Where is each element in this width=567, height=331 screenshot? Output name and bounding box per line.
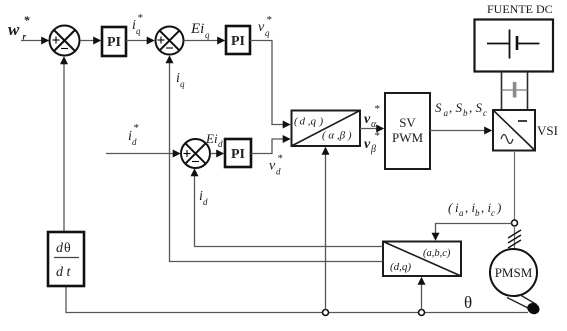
svg-text:b: b <box>475 208 480 218</box>
svg-text:d t: d t <box>56 265 72 280</box>
svg-text:θ: θ <box>64 241 71 256</box>
svg-text:θ: θ <box>464 293 472 312</box>
svg-text:): ) <box>319 116 324 128</box>
wire S3 to PI3 <box>210 153 223 155</box>
node current tap <box>512 220 518 226</box>
wire SVPWM to VSI <box>430 130 491 132</box>
motor PMSM <box>490 249 537 296</box>
svg-text:VSI: VSI <box>537 123 558 138</box>
svg-text:v: v <box>364 137 371 152</box>
wire DC bus left <box>501 72 503 111</box>
wire iq feedback <box>170 57 384 262</box>
svg-text:(: ( <box>448 200 453 215</box>
node theta tap 1 <box>323 310 329 316</box>
svg-text:c: c <box>483 108 487 118</box>
svg-text:S: S <box>435 100 442 115</box>
svg-text:d: d <box>56 241 64 256</box>
svg-text:q: q <box>265 28 270 38</box>
wire S1 to PI1 <box>80 40 100 42</box>
svg-text:SV: SV <box>399 115 416 130</box>
three-phase slashes <box>508 230 521 248</box>
svg-text:d: d <box>276 167 281 177</box>
PI controller PI3 <box>225 139 251 167</box>
block dtheta/dt <box>48 232 84 286</box>
svg-text:PWM: PWM <box>392 130 424 145</box>
wire transform1 to SVPWM <box>360 128 383 130</box>
svg-text:q: q <box>205 30 210 40</box>
transform block abc to dq <box>383 242 461 277</box>
svg-text:v: v <box>258 20 265 35</box>
svg-text:v: v <box>364 112 371 127</box>
svg-text:b: b <box>463 108 468 118</box>
shaft and encoder dot <box>507 295 541 317</box>
svg-text:β: β <box>370 144 376 155</box>
PI controller PI1 <box>102 27 126 56</box>
node theta tap 2 <box>419 310 425 316</box>
svg-text:Ei: Ei <box>205 131 218 146</box>
summing junction S2 <box>156 27 184 55</box>
svg-text:*: * <box>277 153 283 165</box>
svg-text:*: * <box>266 14 272 26</box>
svg-text:, S: , S <box>449 100 463 115</box>
svg-text:(a,b,c): (a,b,c) <box>423 248 451 259</box>
block FUENTE DC <box>475 20 554 72</box>
wire speed feedback dtheta/dt to S1 <box>63 58 65 233</box>
PI controller PI2 <box>226 26 250 54</box>
summing junction S3 <box>181 139 210 168</box>
capacitor DC link <box>502 82 528 98</box>
svg-text:( α ,β ): ( α ,β ) <box>322 130 352 142</box>
wire S2 to PI2 <box>184 40 225 42</box>
svg-text:FUENTE DC: FUENTE DC <box>487 2 553 16</box>
summing junction S1 <box>50 26 80 56</box>
svg-text:(d,q): (d,q) <box>390 261 411 273</box>
svg-text:PI: PI <box>231 147 245 162</box>
svg-text:PMSM: PMSM <box>495 265 533 280</box>
svg-text:a: a <box>459 208 464 218</box>
svg-text:*: * <box>374 103 380 115</box>
wire PI1 to S2 <box>126 40 154 42</box>
wire id feedback <box>195 170 384 247</box>
svg-text:d: d <box>132 137 137 147</box>
transform block dq to alpha-beta <box>292 111 361 147</box>
svg-text:c: c <box>491 208 495 218</box>
svg-text:*: * <box>24 13 31 27</box>
svg-text:PI: PI <box>107 35 121 50</box>
wire id* input to S3 <box>106 153 180 155</box>
wire wr* input <box>21 40 48 42</box>
svg-text:, i: , i <box>481 200 492 215</box>
wire VSI to current node <box>514 151 516 221</box>
svg-text:*: * <box>133 122 139 134</box>
wire theta to transform1 <box>325 148 327 310</box>
wire node to PMSM <box>514 226 516 249</box>
svg-text:*: * <box>137 12 143 24</box>
wire DC bus right <box>527 72 529 111</box>
svg-text:q: q <box>136 26 141 36</box>
block SV PWM <box>385 93 430 169</box>
wire PI3 to dq-ab transform (vd*) <box>251 139 290 154</box>
svg-text:d ,q: d ,q <box>300 116 317 128</box>
svg-text:d: d <box>218 139 223 149</box>
svg-text:*: * <box>374 130 380 142</box>
svg-text:, i: , i <box>465 200 476 215</box>
block VSI <box>493 110 535 151</box>
svg-text:v: v <box>269 159 276 174</box>
svg-text:PI: PI <box>231 34 245 49</box>
svg-text:Ei: Ei <box>190 21 204 37</box>
svg-text:w: w <box>8 20 20 39</box>
svg-text:): ) <box>496 200 501 215</box>
svg-text:d: d <box>203 197 208 207</box>
svg-text:α: α <box>371 119 377 130</box>
battery symbol <box>487 30 540 59</box>
wire theta bottom bus <box>66 286 528 313</box>
wire node to abc-dq transform <box>436 224 512 240</box>
svg-text:, S: , S <box>469 100 483 115</box>
wire PI2 to dq-ab transform (vq*) <box>250 41 290 125</box>
wire theta to transform2 <box>421 278 423 310</box>
svg-text:q: q <box>180 79 185 89</box>
svg-text:a: a <box>444 108 449 118</box>
